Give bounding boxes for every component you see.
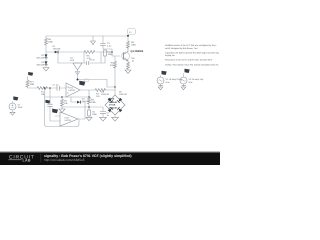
- svg-text:1N4148: 1N4148: [109, 101, 117, 104]
- svg-text:Resonance is set via R7 and R3: Resonance is set via R7 and R3 ratio, tr…: [165, 58, 213, 61]
- svg-text:Sweep / Test Sweep / Run Test: Sweep / Test Sweep / Run Test Sweep Simu…: [165, 63, 219, 66]
- svg-text:http://circuitlab.com/c6845u5: http://circuitlab.com/c6845u5: [44, 158, 85, 162]
- svg-text:100n: 100n: [92, 113, 98, 116]
- svg-text:LAB: LAB: [23, 159, 31, 163]
- svg-text:1N4148: 1N4148: [36, 64, 44, 67]
- svg-text:Capacitors are built to operat: Capacitors are built to operate the offs…: [165, 52, 219, 55]
- svg-text:1N4148: 1N4148: [109, 106, 117, 109]
- svg-text:100n: 100n: [108, 53, 114, 56]
- svg-text:Q1 2N3904: Q1 2N3904: [131, 50, 144, 53]
- svg-text:1N4148: 1N4148: [101, 93, 109, 96]
- svg-text:OA1: OA1: [69, 87, 74, 90]
- svg-text:LM741: LM741: [65, 119, 72, 122]
- svg-text:1N4148: 1N4148: [53, 47, 61, 50]
- svg-text:1kHz: 1kHz: [18, 106, 23, 109]
- svg-text:cutoff, designed by Bob Pease.: cutoff, designed by Bob Pease. Test: [165, 47, 198, 50]
- svg-text:D5 D6: D5 D6: [108, 98, 115, 101]
- svg-text:1N4148: 1N4148: [82, 100, 90, 103]
- svg-text:1N4148: 1N4148: [36, 57, 44, 60]
- svg-text:ringing too.: ringing too.: [165, 54, 176, 57]
- svg-text:Modified version of the VCF th: Modified version of the VCF that was con…: [165, 44, 218, 47]
- svg-text:C5 1n: C5 1n: [89, 59, 96, 62]
- svg-text:OA2: OA2: [65, 117, 70, 120]
- svg-text:1N4148: 1N4148: [119, 93, 127, 96]
- svg-text:C1 2u: C1 2u: [53, 84, 60, 87]
- svg-text:LM741: LM741: [69, 89, 76, 92]
- svg-text:V2 1k amp 0.5ap: V2 1k amp 0.5ap: [166, 78, 183, 81]
- svg-text:D7 D8: D7 D8: [109, 104, 116, 107]
- svg-text:V3 1k amp 2ap: V3 1k amp 2ap: [189, 78, 204, 81]
